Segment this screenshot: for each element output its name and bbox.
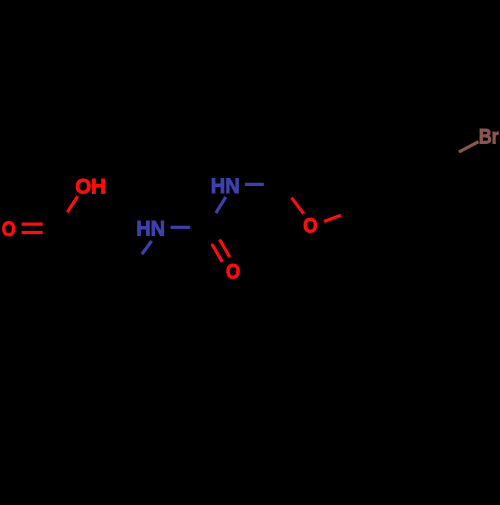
bond N2-C(urea) (blue half): [216, 197, 226, 213]
svg-text:O: O: [2, 217, 16, 241]
wire: black carbon skeleton (invisible on black background): [60, 137, 459, 357]
benzene ring of anthranilic acid: [60, 268, 158, 357]
bond N2-C2(benzofuran) (blue half): [245, 183, 264, 186]
furan O-C2 bond (red half): [292, 198, 304, 214]
furan O-C7a bond (red half): [324, 215, 341, 221]
half bonds on carbon side: [190, 226, 206, 230]
carboxyl C to ring C1': [60, 228, 81, 272]
svg-text:HN: HN: [136, 217, 165, 241]
svg-text:O: O: [226, 260, 240, 284]
svg-text:OH: OH: [75, 174, 106, 198]
svg-text:Br: Br: [479, 124, 499, 148]
bond N1-aryl (blue half): [142, 241, 152, 254]
carboxylic acid C=O double bond (red halves): [22, 224, 43, 232]
urea C=O double bond (red halves): [212, 240, 230, 262]
bond C5-Br (brown half near Br): [459, 142, 479, 152]
svg-text:HN: HN: [211, 174, 240, 198]
bond N1-C(urea) (blue half): [171, 226, 191, 229]
bond C-OH (red half near OH): [67, 196, 78, 212]
benzofuran black bonds: [277, 137, 444, 232]
svg-text:O: O: [303, 213, 317, 237]
